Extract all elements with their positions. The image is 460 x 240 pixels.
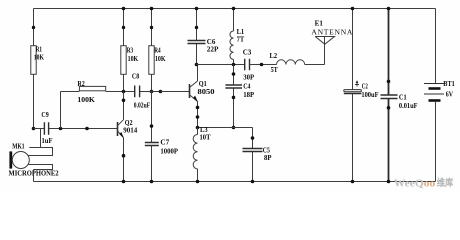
microphone MK1: [9, 142, 59, 178]
wire: tank circuit node (Q1 collector to C3): [197, 64, 245, 66]
node: junction L1 / tank wire / C4: [232, 63, 236, 67]
resistor R2: [61, 79, 135, 129]
capacitor C9: [34, 110, 118, 145]
resistor R3: [121, 9, 138, 92]
node: R3 top rail junction: [122, 7, 126, 11]
inductor L2: [270, 51, 325, 74]
capacitor C6: [188, 9, 219, 65]
svg-text:R2: R2: [77, 79, 85, 88]
node: stray dot on C5 column: [251, 136, 255, 140]
node: junction R1 / C9: [32, 127, 36, 131]
capacitor C1: [381, 9, 418, 182]
svg-text:1000P: 1000P: [160, 146, 178, 155]
svg-text:10K: 10K: [128, 54, 139, 63]
svg-text:6V: 6V: [446, 90, 454, 99]
svg-text:MK1: MK1: [12, 142, 25, 151]
node: Q2 emitter ground junction: [122, 180, 126, 184]
svg-text:100uF: 100uF: [361, 90, 378, 99]
svg-text:18P: 18P: [243, 90, 254, 99]
svg-text:0.02uF: 0.02uF: [134, 101, 151, 110]
node: C5 ground junction: [251, 180, 255, 184]
wire: mic lower lead to ground rail: [33, 170, 35, 182]
node: L3 ground junction: [196, 180, 200, 184]
node: C2 top rail junction: [351, 7, 355, 11]
node: stray dot on Q2 emitter column: [122, 154, 126, 158]
svg-text:10K: 10K: [155, 54, 166, 63]
svg-text:30P: 30P: [243, 73, 254, 82]
inductor L1: [230, 9, 244, 65]
wire: bottom ground rail: [34, 181, 436, 183]
svg-text:8P: 8P: [264, 153, 272, 162]
capacitor C5: [243, 128, 272, 182]
svg-text:维库: 维库: [437, 177, 454, 189]
svg-text:C9: C9: [41, 110, 48, 119]
svg-text:8050: 8050: [198, 87, 215, 96]
svg-text:1uF: 1uF: [42, 136, 53, 145]
node: R4 top rail junction: [150, 7, 154, 11]
svg-text:9014: 9014: [123, 126, 137, 135]
node: stray dot on Q2 base wire: [85, 127, 89, 131]
svg-text:10T: 10T: [200, 132, 211, 141]
node: C6 top rail junction: [195, 7, 199, 11]
svg-text:100K: 100K: [77, 95, 95, 104]
svg-text:22P: 22P: [207, 45, 219, 54]
node: C1 top rail junction: [387, 7, 391, 11]
svg-text:10K: 10K: [34, 53, 44, 62]
transistor Q1: [190, 65, 215, 135]
node: stray dot on C7 column: [150, 124, 154, 128]
transistor Q2: [118, 92, 138, 182]
svg-text:L2: L2: [270, 51, 278, 60]
node: stray dot on R3 column: [122, 26, 125, 29]
capacitor C8: [132, 71, 161, 109]
wire: drop from C9 node to mic upper lead: [40, 129, 42, 148]
node: junction C6 / Q1 collector / tank wire: [195, 63, 199, 67]
capacitor C3: [243, 48, 277, 82]
wire: mic upper lead bracket: [28, 148, 53, 156]
node: C7 ground junction: [150, 180, 154, 184]
svg-text:5T: 5T: [271, 65, 278, 74]
node: stray dot on Q2 collector: [122, 99, 126, 103]
svg-text:WeeQoo: WeeQoo: [394, 178, 436, 189]
node: stray dot after C3: [260, 63, 264, 67]
node: stray dots on C1 column: [387, 80, 391, 84]
node: junction C9 / R2 drop: [59, 127, 63, 131]
svg-text:0.01uF: 0.01uF: [399, 101, 418, 110]
wire: mic lower lead bracket: [28, 165, 52, 170]
node: junction L3 / emitter wire: [196, 126, 200, 130]
resistor R4: [149, 9, 166, 92]
node: C2 ground junction: [351, 180, 355, 184]
node: stray dot on R4 column: [150, 26, 153, 29]
node: junction C4 / emitter wire: [232, 126, 236, 130]
svg-text:C3: C3: [243, 48, 252, 57]
svg-text:ANTENNA: ANTENNA: [311, 28, 353, 37]
node: C1 ground junction: [387, 180, 391, 184]
svg-text:C8: C8: [132, 71, 139, 80]
wire: top supply rail: [34, 8, 436, 10]
node: junction R4 / Q1 base wire: [150, 90, 154, 94]
watermark WeeQoo weiku: [394, 177, 454, 189]
node: L1 top rail junction: [232, 7, 236, 11]
node: stray dots on Q1 emitter column: [196, 106, 200, 110]
capacitor C4: [225, 65, 254, 128]
svg-text:C7: C7: [160, 138, 169, 147]
node: stray dot on Q1 base wire: [159, 90, 163, 94]
battery BT1: [424, 9, 455, 182]
svg-text:7T: 7T: [237, 35, 245, 44]
node: stray dot on C6 column: [195, 26, 198, 29]
node: stray dot below C4: [232, 96, 236, 100]
inductor L3: [193, 125, 210, 181]
capacitor C2 (electrolytic): [344, 9, 379, 182]
resistor R1: [31, 9, 44, 129]
node: junction R3 / Q1 base wire: [122, 90, 126, 94]
antenna E1: [311, 18, 353, 64]
svg-text:BT1: BT1: [443, 79, 455, 88]
svg-text:E1: E1: [315, 18, 323, 27]
wire: C8 to Q1 base: [161, 91, 190, 93]
wire: emitter node L3 / C4 / C5: [198, 127, 253, 129]
node: stray junction dot on R1 column: [32, 26, 35, 29]
capacitor C7: [145, 92, 179, 182]
node: stray dot above C4: [232, 72, 236, 76]
